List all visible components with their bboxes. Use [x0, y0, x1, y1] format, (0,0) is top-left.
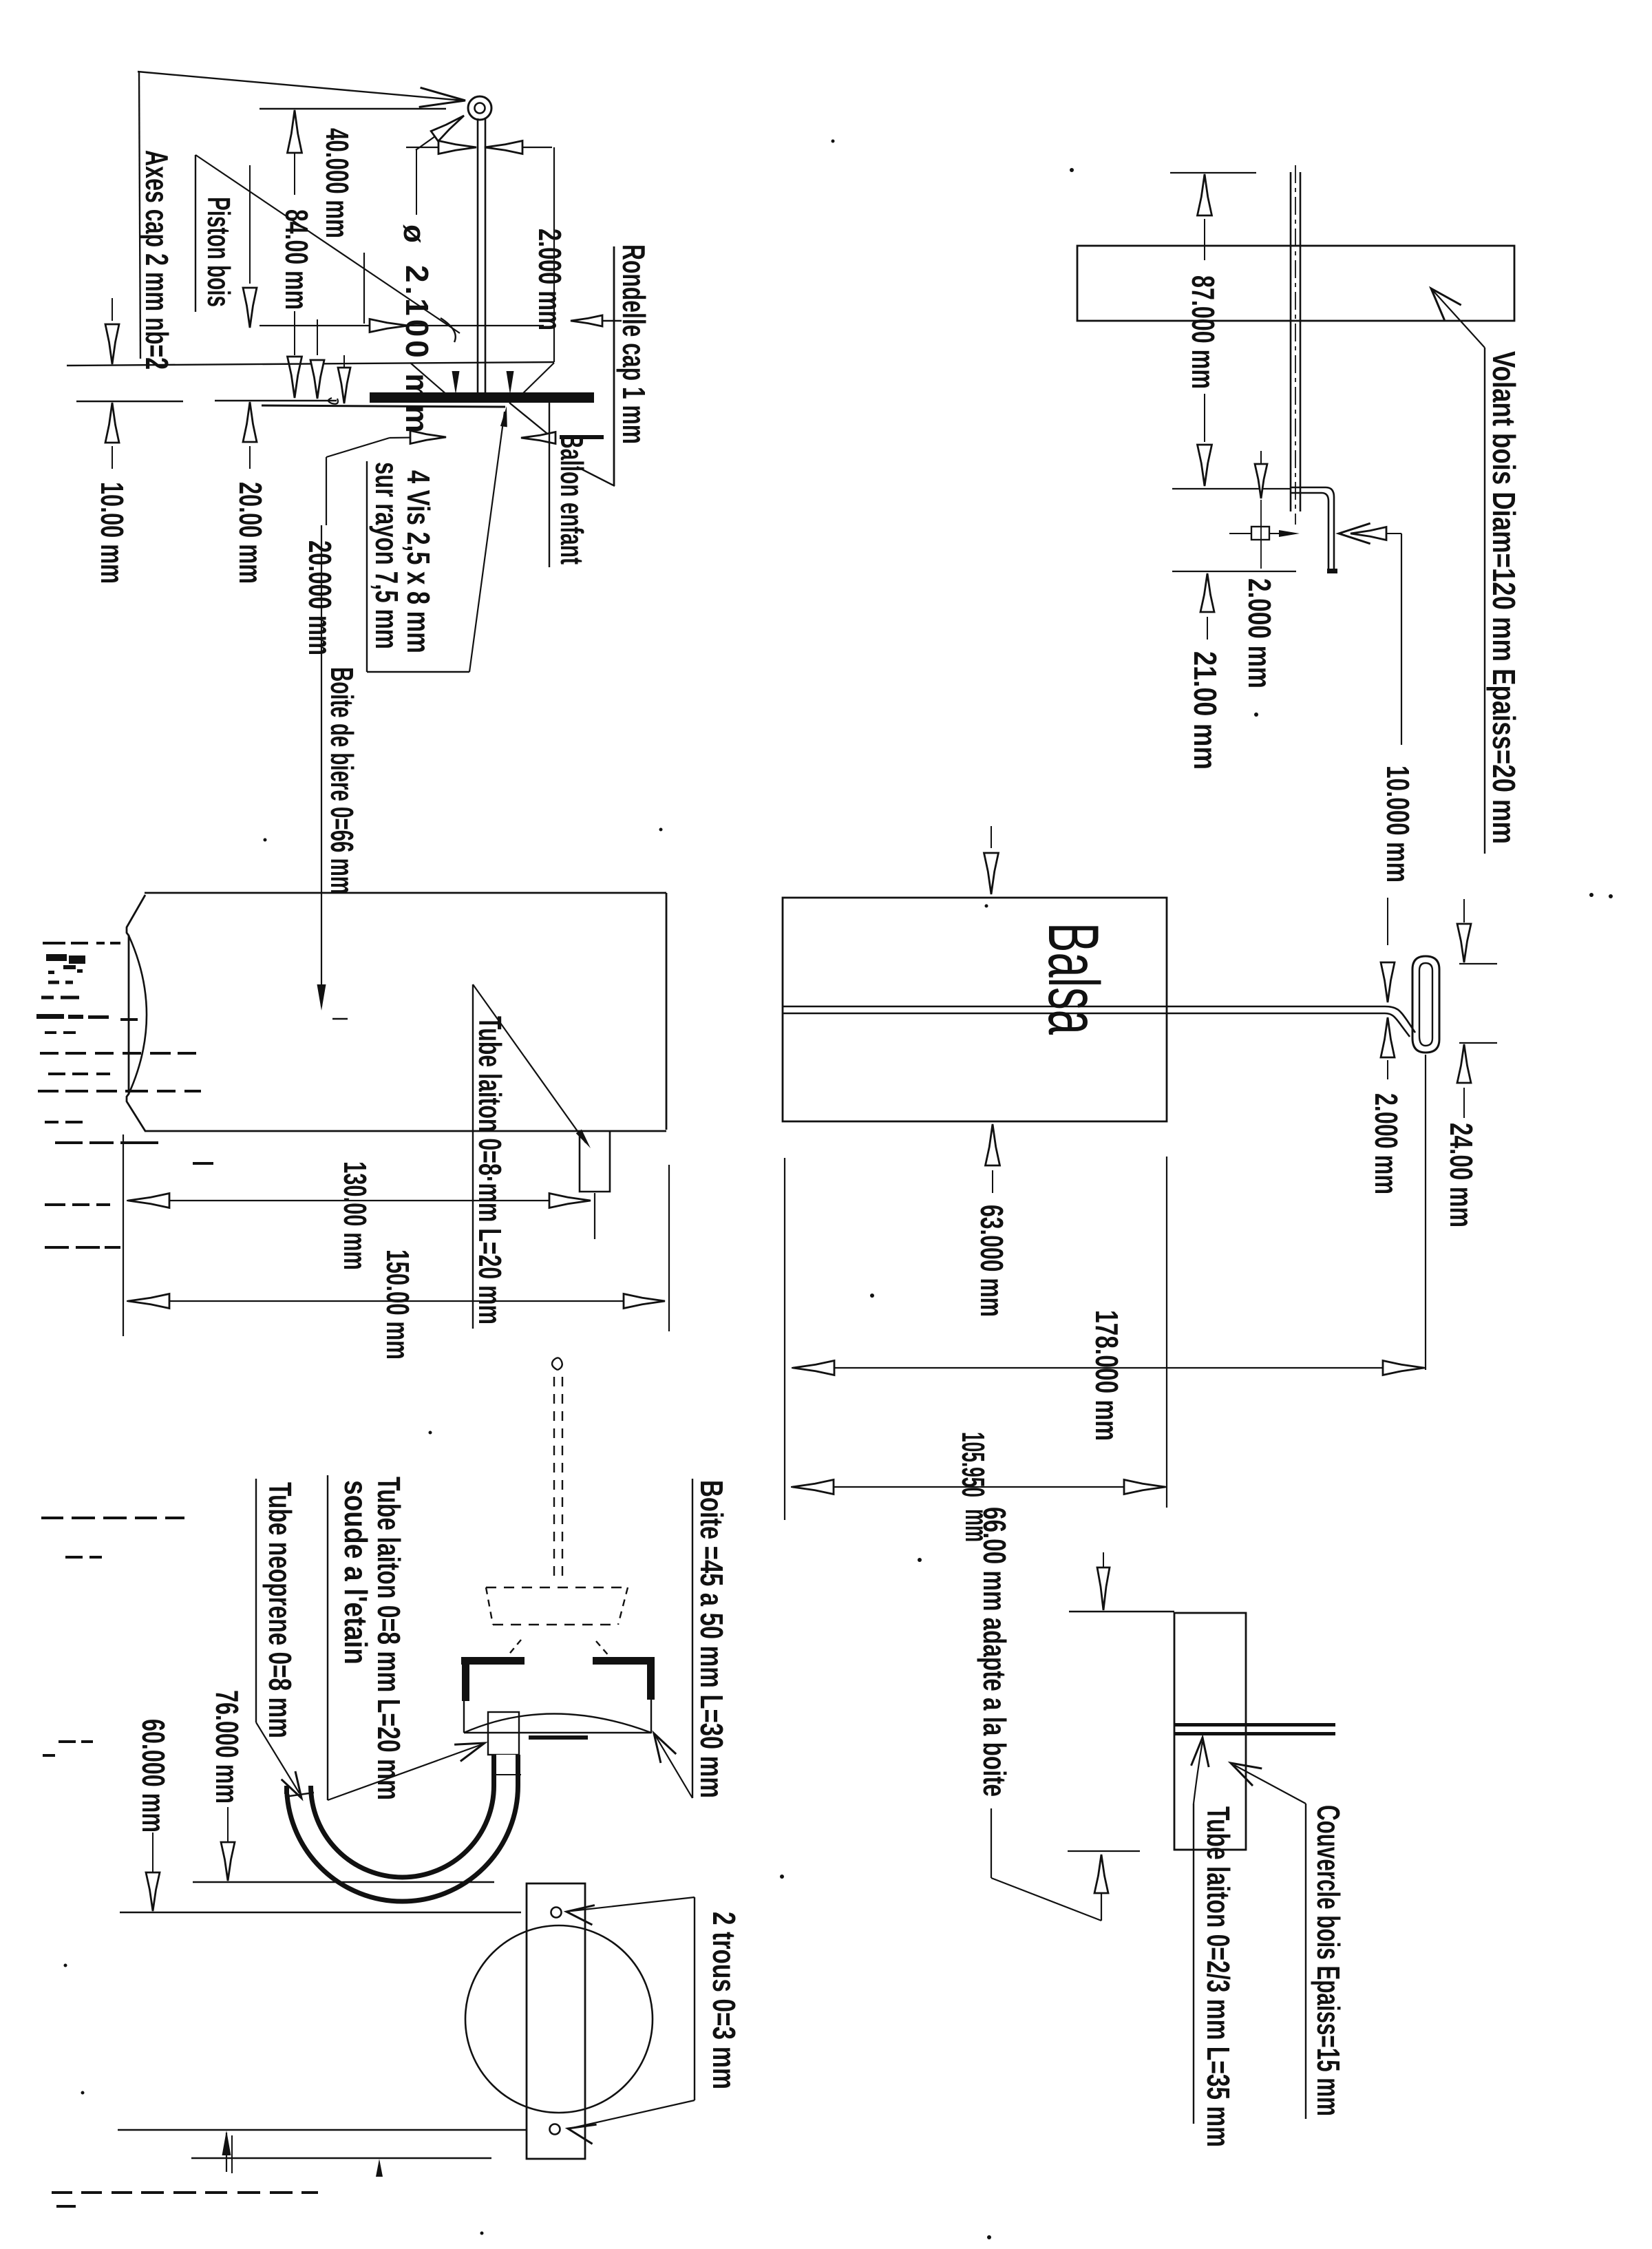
svg-text:40.000 mm: 40.000 mm: [319, 128, 355, 238]
leader couvercle diag: [1234, 1765, 1306, 1804]
tail crank2 upper: [1260, 451, 1262, 464]
tail screw arrow 1: [455, 372, 456, 386]
underline couvercle: [1305, 1804, 1306, 2119]
ext line can left: [123, 1134, 124, 1336]
screw arrow 1: [452, 371, 460, 394]
solid arrow up base1: [222, 2131, 231, 2155]
underline Ballon enfant: [549, 403, 550, 567]
leader 66 vertical: [991, 1808, 992, 1878]
arrow right 178: [1383, 1361, 1424, 1375]
scan noise: [38, 1090, 59, 1092]
scan noise: [45, 1246, 69, 1249]
underline tube neoprene: [255, 1479, 257, 1722]
label Tube laiton 0=8 mm L=20 mm soude: [371, 1477, 407, 1800]
scan noise: [41, 996, 54, 1000]
svg-text:Boite =45 a 50 mm L=30 mm: Boite =45 a 50 mm L=30 mm: [694, 1480, 730, 1798]
svg-text:Tube laiton 0=8·mm L=20 mm: Tube laiton 0=8·mm L=20 mm: [472, 1016, 508, 1324]
leader diag to rod top: [416, 118, 461, 150]
balloon left side dashed: [486, 1587, 493, 1625]
leader diag Rondelle bottom: [577, 467, 615, 486]
leader Piston bois: [195, 155, 460, 333]
arrowhead tube neoprene: [282, 1771, 301, 1798]
box line bottom 4Vis: [367, 671, 469, 673]
arrow up 87.000: [1198, 174, 1212, 215]
hook outer outline: [1412, 956, 1439, 1053]
leader Rondelle horiz: [575, 320, 622, 321]
label Rondelle cap 1 mm: [616, 244, 652, 444]
leader 4 Vis diagonal: [469, 412, 505, 672]
thin line under plate: [262, 405, 505, 407]
label Axes cap 2 mm nb=2: [139, 150, 175, 370]
scan noise: [52, 2191, 72, 2194]
support plate rect: [527, 1883, 585, 2159]
svg-text:Couvercle bois Epaiss=15 mm: Couvercle bois Epaiss=15 mm: [1311, 1805, 1346, 2116]
svg-text:4 Vis 2,5 x 8 mm: 4 Vis 2,5 x 8 mm: [401, 470, 436, 653]
svg-text:130.00 mm: 130.00 mm: [337, 1161, 373, 1270]
scan noise: [43, 942, 65, 944]
tail 76.000: [227, 1807, 229, 1845]
dim text 2.000 mm crank: [1242, 578, 1278, 688]
arrow up 40.000: [288, 110, 302, 153]
dim text 2.000 mm rod: [532, 229, 568, 330]
scan noise: [120, 1018, 138, 1021]
U tube bore white: [299, 1755, 506, 1890]
arrow right at rod left: [438, 141, 476, 154]
dim text 76.000 mm: [209, 1690, 245, 1804]
scan noise: [56, 2205, 76, 2208]
arrowhead boite: [654, 1733, 676, 1763]
arrow tail 40.000: [294, 153, 295, 195]
brass tube rect: [488, 1712, 519, 1755]
ext line lid bottom: [1068, 1850, 1140, 1852]
arrow left at rod right: [485, 141, 522, 154]
base line short: [191, 2157, 491, 2159]
svg-text:87.000 mm: 87.000 mm: [1185, 275, 1221, 389]
tail arrow x461: [317, 319, 318, 355]
flywheel circle bottom view: [465, 1925, 653, 2113]
tail 21.00: [1207, 617, 1208, 640]
noise blob cluster: [46, 954, 67, 961]
boite right wall thick: [647, 1657, 655, 1700]
balsa rectangle: [783, 898, 1167, 1121]
solid arrow right crank: [1279, 530, 1300, 537]
axle right line: [1300, 172, 1302, 511]
arrow up 24.00: [1457, 1044, 1471, 1083]
leader vertical Axes cap: [139, 72, 140, 359]
tail arrow lid top: [1103, 1552, 1104, 1576]
lid bottom edge emphasize: [1174, 1849, 1246, 1851]
boite top wall right: [593, 1657, 655, 1665]
scan noise: [48, 1073, 65, 1075]
arrow down 24.00: [1457, 924, 1471, 962]
can left end profile: [127, 895, 145, 1131]
box line vertical 4Vis: [366, 461, 368, 672]
arrow left 130: [128, 1194, 169, 1208]
arrowhead couvercle: [1231, 1763, 1262, 1786]
balloon right side dashed: [618, 1587, 628, 1625]
svg-text:63.000 mm: 63.000 mm: [974, 1205, 1010, 1317]
svg-text:soude a l'etain: soude a l'etain: [338, 1480, 374, 1665]
leader 2trous bottom diag: [573, 2100, 695, 2128]
balloon top dashed: [486, 1587, 628, 1588]
crank pin inner circle: [475, 103, 485, 114]
svg-text:2 trous 0=3 mm: 2 trous 0=3 mm: [706, 1912, 742, 2089]
leader Ballon diag to plate: [509, 403, 551, 436]
svg-text:10.00 mm: 10.00 mm: [94, 482, 130, 584]
label Tube laiton 0=8 mm L=20: [472, 1016, 508, 1324]
piston rod left line: [477, 118, 479, 395]
arrowhead soude: [454, 1743, 485, 1762]
svg-text:105.950: 105.950: [955, 1432, 991, 1497]
arrowhead 10.000: [1339, 523, 1370, 544]
svg-text:ø: ø: [397, 224, 431, 243]
scan squiggle left of plate: [328, 398, 338, 404]
label Couvercle bois Epaiss=15 mm: [1311, 1805, 1346, 2116]
svg-text:Tube neoprene 0=8 mm: Tube neoprene 0=8 mm: [262, 1482, 298, 1738]
dim text 63.000 mm: [974, 1205, 1010, 1317]
svg-text:Volant bois Diam=120 mm Epaiss: Volant bois Diam=120 mm Epaiss=20 mm: [1486, 351, 1522, 844]
arrow down 10.00: [105, 324, 119, 364]
svg-text:sur rayon 7,5 mm: sur rayon 7,5 mm: [369, 462, 405, 649]
leader 20.000 vertical: [326, 457, 327, 525]
svg-text:Piston bois: Piston bois: [201, 197, 237, 307]
dim line 178.000: [792, 1367, 1426, 1369]
tail 20.00 lower: [249, 446, 251, 469]
svg-text:178.000 mm: 178.000 mm: [1089, 1310, 1125, 1441]
arrow left 150: [128, 1294, 169, 1309]
funnel right diagonal: [521, 363, 554, 395]
svg-text:84.00 mm: 84.00 mm: [279, 209, 315, 310]
tail 63 lower: [992, 1170, 993, 1193]
tail arrow x500: [343, 355, 345, 373]
leader 10.000 vertical: [1401, 534, 1402, 745]
scan noise: [43, 1754, 55, 1757]
leader to crank pin: [138, 72, 463, 101]
crank elbow inner: [1322, 493, 1328, 570]
thin line across bore: [491, 1774, 521, 1775]
leader hook arrow piston: [441, 318, 456, 342]
tick axle top: [1170, 172, 1256, 173]
arrow right 105.950: [1124, 1480, 1165, 1495]
ext line to dia text: [416, 149, 417, 215]
tail base arrow1b: [231, 2135, 233, 2173]
dim text 84.00 mm: [279, 209, 315, 310]
arrow up 21.00: [1200, 573, 1214, 612]
svg-text:Rondelle cap 1 mm: Rondelle cap 1 mm: [616, 244, 652, 444]
leader 2trous vertical: [694, 1897, 695, 2100]
arrowhead Ballon leader: [521, 432, 555, 444]
dim text 40.000 mm: [319, 128, 355, 238]
underline soude: [327, 1475, 328, 1800]
leader soude: [328, 1744, 482, 1800]
dim text 2.000 mm balsa: [1368, 1093, 1404, 1194]
shaft 10.000: [1386, 533, 1401, 534]
tube laiton 2/3 lower line: [1175, 1732, 1335, 1735]
arrow right 150: [624, 1294, 665, 1309]
crank pin end cap: [1328, 569, 1336, 571]
label Ballon enfant: [554, 434, 590, 564]
piston line left segment: [76, 401, 183, 403]
arrow down lid top: [1097, 1567, 1110, 1610]
svg-text:Tube laiton 0=8 mm L=20 mm: Tube laiton 0=8 mm L=20 mm: [371, 1477, 407, 1800]
diameter symbol: [397, 224, 431, 243]
pushrod bottom line: [783, 1013, 1385, 1015]
scan noise: [59, 1740, 76, 1743]
dim text 20.00 mm: [233, 482, 268, 584]
small tick near can arrow: [332, 1018, 348, 1020]
label Tube neoprene 0=8 mm: [262, 1482, 298, 1738]
tail 84.00 lower: [294, 311, 295, 355]
tail 24 lower: [1463, 1088, 1465, 1118]
scan noise: [45, 1203, 65, 1206]
dim text 87.000 mm: [1185, 275, 1221, 389]
svg-text:Axes cap 2 mm nb=2: Axes cap 2 mm nb=2: [139, 150, 175, 370]
arrow right on rod dia line: [370, 319, 408, 332]
U tube outer black: [299, 1755, 506, 1890]
dim text 10.00 mm: [94, 482, 130, 584]
arrow right 130: [549, 1194, 591, 1208]
tail 2.000 upper balsa: [1387, 898, 1388, 945]
balloon knot: [552, 1358, 562, 1370]
can right edge: [666, 893, 668, 1130]
label 4 Vis 2,5 x 8 mm: [401, 470, 436, 653]
dim text 178.000 mm: [1089, 1310, 1125, 1441]
arrow down rod 2mm: [1381, 962, 1395, 1002]
arrow left 105.950: [792, 1480, 834, 1495]
underline boite: [692, 1479, 693, 1798]
leader arrowhead at crank pin: [419, 87, 465, 107]
scan noise: [193, 1162, 213, 1165]
axle center line: [1295, 165, 1296, 525]
svg-text:20.00 mm: 20.00 mm: [233, 482, 268, 584]
crank arm bottom: [1290, 492, 1322, 494]
can dome arc: [129, 936, 147, 1094]
scan noise: [48, 981, 59, 984]
tail 24 upper: [1463, 899, 1465, 922]
arrow down at plate right 2: [338, 368, 350, 403]
arrow down 76.000: [221, 1842, 235, 1881]
dim text 60.000 mm: [136, 1719, 171, 1833]
ground line inner: [193, 1881, 494, 1883]
crank elbow outer: [1326, 487, 1334, 570]
tail 10.00 lower: [112, 446, 113, 469]
svg-text:150.00 mm: 150.00 mm: [380, 1249, 416, 1360]
arrowhead tube 2/3: [1192, 1738, 1209, 1767]
svg-text:Ballon enfant: Ballon enfant: [554, 434, 590, 564]
dim line 150.00: [127, 1300, 664, 1302]
balloon tick left: [507, 1640, 521, 1656]
leader 2trous top diag: [571, 1897, 695, 1911]
svg-text:Boite de biere 0=66 mm: Boite de biere 0=66 mm: [324, 667, 360, 894]
tail 20.00 upper: [249, 165, 251, 284]
leader boite: [655, 1735, 692, 1798]
piston top line: [67, 362, 554, 366]
svg-text:60.000 mm: 60.000 mm: [136, 1719, 171, 1833]
tail base arrow1: [226, 2133, 227, 2172]
arrow up 10.00: [105, 403, 119, 443]
can rim chord in boite: [464, 1732, 651, 1733]
arrow down 60.000: [146, 1872, 160, 1911]
tube laiton 2/3 upper line: [1175, 1723, 1335, 1727]
svg-text:24.00 mm: 24.00 mm: [1443, 1123, 1479, 1227]
can top edge: [145, 892, 666, 894]
base line long: [118, 2129, 527, 2131]
dim text 130.00 mm: [337, 1161, 373, 1270]
arrow open 10.000: [1351, 527, 1386, 540]
axle left line: [1290, 172, 1292, 511]
dim text 24.00 mm: [1443, 1123, 1479, 1227]
svg-text:2.000 mm: 2.000 mm: [1242, 578, 1278, 688]
shaft left small: [1229, 533, 1251, 534]
arrowhead 2trous bottom: [568, 2124, 597, 2144]
balloon neck dashed right: [562, 1377, 563, 1583]
svg-text:2.000 mm: 2.000 mm: [1368, 1093, 1404, 1194]
tube laiton nub: [580, 1131, 610, 1192]
underline volant: [1484, 348, 1485, 854]
arrow left 178: [793, 1361, 834, 1375]
svg-text:21.00 mm: 21.00 mm: [1187, 651, 1223, 770]
arrow down at plate right: [310, 360, 324, 399]
misc specks: [1070, 168, 1074, 172]
can rim lip thick: [529, 1735, 588, 1740]
rod bend bottom line: [1385, 1013, 1410, 1037]
dim text 21.00 mm: [1187, 651, 1223, 770]
underline Piston bois: [195, 155, 196, 312]
tail 87 upper: [1204, 219, 1205, 260]
ext line nub: [594, 1193, 595, 1239]
svg-text:Tube laiton 0=2/3 mm L=35 mm: Tube laiton 0=2/3 mm L=35 mm: [1200, 1806, 1236, 2147]
label Piston bois: [201, 197, 237, 307]
crank pin outer circle: [468, 96, 491, 120]
piston rod right line: [485, 118, 487, 395]
svg-text:20.000 mm: 20.000 mm: [302, 540, 338, 655]
piston line mid segment: [215, 400, 337, 402]
underline Tube laiton can: [472, 984, 474, 1329]
screw arrow 2: [507, 371, 514, 394]
boite right wall thin: [650, 1700, 652, 1733]
crank pin cap thick: [1327, 569, 1337, 573]
label 66.00 mm adapte a la boite: [977, 1507, 1013, 1797]
funnel left diagonal: [410, 363, 447, 395]
balloon bottom dashed: [493, 1624, 618, 1625]
flywheel bar rect: [1077, 246, 1514, 321]
boite top wall left: [461, 1657, 525, 1665]
leader 66 up segment: [1101, 1859, 1102, 1921]
leader 66 diagonal: [991, 1878, 1101, 1921]
solid arrow up base2: [376, 2159, 383, 2177]
balloon neck dashed left: [553, 1377, 555, 1583]
ext line right 2.000: [553, 147, 555, 362]
leader tube 2/3: [1194, 1742, 1203, 1804]
ground line outer: [120, 1912, 521, 1913]
ext line hook to 178: [1425, 1055, 1426, 1370]
dim text mm 105.950: [959, 1509, 995, 1542]
arrow at rod top: [431, 116, 464, 141]
piston plate thick bar: [370, 392, 594, 403]
can dome arc in boite: [464, 1714, 651, 1733]
leader line down to can: [321, 525, 322, 1006]
svg-text:66.00 mm adapte a la boite: 66.00 mm adapte a la boite: [977, 1507, 1013, 1797]
leader volant diag: [1431, 288, 1485, 348]
label soude a l etain: [338, 1480, 374, 1665]
leader Ballon thick segment: [560, 435, 604, 439]
tick hook top: [1459, 963, 1497, 964]
scan noise: [55, 1141, 83, 1144]
label Volant bois Diam=120 mm Epaiss=20 mm: [1486, 351, 1522, 844]
small square crank detail: [1251, 527, 1269, 540]
dim line 2.000 right part: [487, 147, 552, 148]
arrow up 20.00: [243, 402, 257, 442]
tail screw arrow 2: [509, 372, 511, 386]
arrow up under balsa: [986, 1124, 1000, 1165]
pushrod top line: [783, 1006, 1385, 1008]
hook inner outline: [1419, 963, 1432, 1046]
underline tube laiton 2/3: [1193, 1804, 1194, 2124]
balloon tick right: [596, 1641, 610, 1657]
boite left wall thick: [462, 1657, 469, 1701]
svg-text:2.100 mm: 2.100 mm: [399, 265, 435, 433]
ext line lid top: [1069, 1611, 1174, 1612]
U tube left end cut: [285, 1793, 314, 1797]
hole top: [551, 1908, 562, 1918]
scan noise: [65, 1556, 83, 1559]
ext line balsa right long: [1166, 1157, 1167, 1508]
scan noise: [41, 1517, 63, 1519]
crank arm top: [1290, 487, 1326, 489]
rod bend top line: [1385, 1006, 1415, 1033]
svg-text:Balsa: Balsa: [1033, 922, 1113, 1035]
dim text 2.100 mm: [399, 265, 435, 433]
label Balsa: [1033, 922, 1113, 1035]
arrowhead 2trous top: [566, 1905, 595, 1925]
crank ext line: [1172, 488, 1290, 489]
arrow up 66 at lid bottom: [1094, 1855, 1108, 1893]
dim line 40.000 top: [260, 108, 446, 109]
dim text 105.950: [955, 1432, 991, 1497]
ext line 2.100 left: [363, 253, 365, 324]
boite left wall thin: [463, 1701, 465, 1733]
arrow up rod 2mm: [1381, 1017, 1395, 1057]
tick hook bottom: [1459, 1042, 1497, 1044]
label Tube laiton 0=2/3 mm L=35 mm: [1200, 1806, 1236, 2147]
can bottom edge: [145, 1130, 666, 1132]
leader tube neoprene: [256, 1722, 299, 1793]
dim text 20.000 mm: [302, 540, 338, 655]
tick crank bottom: [1172, 571, 1296, 572]
dim line 130.00: [127, 1200, 590, 1201]
ext line balsa left long: [784, 1158, 785, 1520]
leader 20.000 diag: [326, 438, 390, 457]
tail 2.000 lower balsa: [1387, 1060, 1388, 1079]
svg-text:76.000 mm: 76.000 mm: [209, 1690, 245, 1804]
arrow down 20.00: [243, 288, 257, 328]
label 2 trous 0=3 mm: [706, 1912, 742, 2089]
arrow down crank 2mm: [1255, 464, 1267, 498]
tail 10.00 upper: [112, 298, 113, 321]
scan noise: [45, 1121, 59, 1123]
arrow down onto balsa top: [984, 853, 999, 894]
tail 60.000: [152, 1833, 153, 1872]
couvercle lid rectangle: [1174, 1613, 1246, 1850]
arrow down 84.00: [288, 357, 302, 398]
leader Tube laiton diag: [473, 984, 586, 1143]
noise blob 2: [36, 1014, 64, 1019]
dim line rod diameter: [260, 325, 544, 326]
dim text 10.000 mm: [1380, 765, 1416, 883]
label sur rayon 7,5 mm: [369, 462, 405, 649]
tail 87 lower: [1204, 394, 1205, 442]
arrowhead volant: [1431, 288, 1461, 320]
